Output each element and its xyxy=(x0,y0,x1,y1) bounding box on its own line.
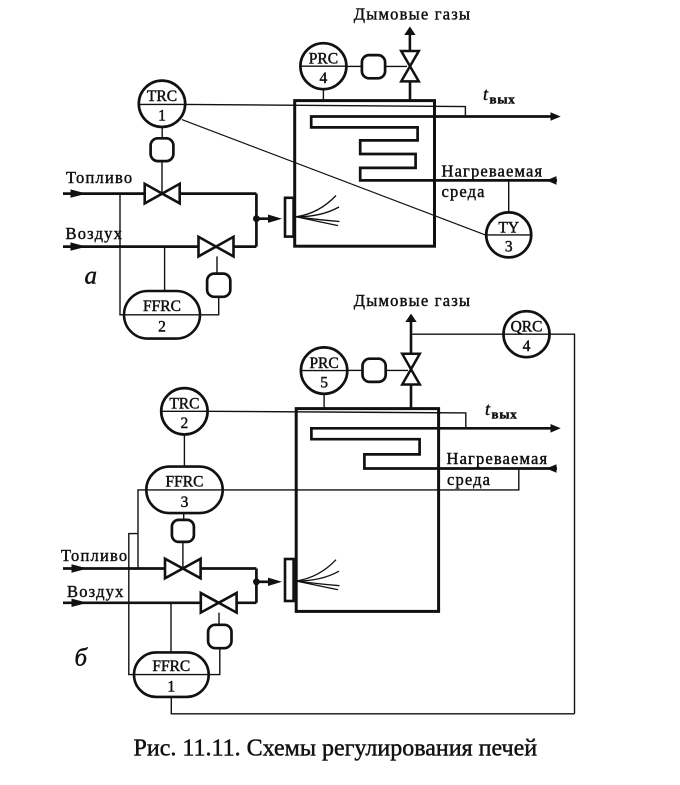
svg-text:среда: среда xyxy=(447,470,491,489)
svg-text:t: t xyxy=(483,84,489,104)
t-out arrow (scheme b) xyxy=(551,424,561,433)
signal FFRC-3 down to actuator xyxy=(183,513,185,520)
flue gas outlet arrow (scheme a) xyxy=(409,34,412,51)
svg-text:а: а xyxy=(85,263,98,290)
svg-text:вых: вых xyxy=(492,407,518,422)
analyzer QRC-4 xyxy=(504,311,550,357)
svg-text:4: 4 xyxy=(320,70,328,87)
svg-text:Воздух: Воздух xyxy=(67,582,125,601)
svg-text:3: 3 xyxy=(181,494,189,511)
svg-text:TY: TY xyxy=(498,219,519,236)
signal TRC-2 measurement line to coil outlet xyxy=(161,411,466,428)
fuel control valve (scheme b) xyxy=(165,559,201,579)
svg-text:3: 3 xyxy=(505,239,513,256)
signal PRC-5 to actuator circle xyxy=(347,369,362,371)
svg-text:среда: среда xyxy=(442,182,486,201)
signal air pipe to FFRC-1 xyxy=(170,603,172,653)
signal heated line to TY-3 xyxy=(508,180,510,212)
signal air valve to actuator circle xyxy=(216,256,218,273)
ratio controller FFRC-2 xyxy=(124,291,200,339)
svg-text:Топливо: Топливо xyxy=(61,546,128,565)
ratio controller FFRC-3 xyxy=(146,467,222,513)
signal FFRC-1 to fuel pipe xyxy=(129,534,138,675)
svg-text:Дымовые газы: Дымовые газы xyxy=(354,5,471,24)
signal diagonal TY-3 to TRC-1 xyxy=(182,120,486,236)
actuator circle (flue valve b) xyxy=(363,359,386,382)
signal line PRC-4 to actuator circle xyxy=(346,65,361,67)
air control valve (scheme a) xyxy=(199,237,234,257)
burner feed arrow (scheme a) xyxy=(256,217,272,220)
svg-text:Топливо: Топливо xyxy=(66,168,133,187)
signal actuator to fuel valve b xyxy=(182,542,184,568)
svg-text:вых: вых xyxy=(490,92,516,107)
t-out arrow (scheme a) xyxy=(551,112,561,121)
actuator circle (fuel valve a) xyxy=(151,138,174,161)
svg-text:5: 5 xyxy=(320,374,328,391)
signal FFRC-3 to fuel pipe xyxy=(138,490,146,569)
svg-text:TRC: TRC xyxy=(147,88,177,105)
flue gas outlet arrow (scheme b) xyxy=(410,321,413,354)
signal line air pipe to FFRC-2 xyxy=(164,247,166,291)
svg-text:Дымовые газы: Дымовые газы xyxy=(354,291,471,310)
svg-text:4: 4 xyxy=(523,338,531,355)
svg-text:FFRC: FFRC xyxy=(143,298,181,315)
svg-text:Нагреваемая: Нагреваемая xyxy=(442,162,544,181)
actuator circle (air valve a) xyxy=(207,274,230,297)
burner (scheme b) xyxy=(285,559,294,601)
controller PRC-5 xyxy=(301,347,347,393)
signal FFRC-1 bottom loop to QRC-4 xyxy=(171,697,574,714)
svg-text:FFRC: FFRC xyxy=(152,658,190,675)
controller TRC-1 xyxy=(139,81,185,127)
actuator circle (fuel valve b) xyxy=(172,520,194,542)
svg-text:FFRC: FFRC xyxy=(166,473,204,490)
mixing header vertical (scheme b) xyxy=(255,569,258,603)
svg-text:Рис. 11.11. Схемы регулировани: Рис. 11.11. Схемы регулирования печей xyxy=(134,736,538,762)
heating coil inside furnace b xyxy=(311,428,557,468)
fuel line (scheme a) xyxy=(63,192,145,195)
actuator circle (air valve b) xyxy=(208,625,231,648)
svg-text:t: t xyxy=(485,399,491,419)
signal TRC-1 down to actuator xyxy=(161,127,163,139)
signal actuator to flue valve xyxy=(385,65,407,67)
signal air valve b to actuator circle xyxy=(218,613,220,625)
svg-text:Нагреваемая: Нагреваемая xyxy=(447,449,549,468)
air line (scheme b) xyxy=(63,601,201,604)
flame (scheme b) xyxy=(296,560,340,590)
signal actuator to FFRC-2 xyxy=(200,297,219,315)
signal QRC-4 right and down xyxy=(550,334,575,714)
heated medium inlet arrow (scheme a) xyxy=(546,176,556,185)
svg-text:TRC: TRC xyxy=(169,396,199,413)
heating coil inside furnace a xyxy=(311,117,557,181)
signal line PRC-4 down to furnace xyxy=(322,89,324,99)
svg-text:2: 2 xyxy=(158,319,166,336)
air line (scheme a) xyxy=(63,245,199,248)
signal actuator to flue valve b xyxy=(386,369,408,371)
svg-text:2: 2 xyxy=(181,415,189,432)
valve V-flue-b on flue duct xyxy=(402,354,420,408)
burner feed arrow (scheme b) xyxy=(256,580,272,583)
furnace body (scheme b) xyxy=(296,409,438,612)
furnace body (scheme a) xyxy=(295,101,435,247)
signal TRC-2 down to FFRC-3 xyxy=(183,435,185,467)
valve V-flue-a on flue duct xyxy=(401,51,419,100)
controller PRC-4 xyxy=(300,43,346,89)
signal flue duct to QRC-4 xyxy=(411,333,504,335)
svg-text:PRC: PRC xyxy=(309,51,338,68)
signal FFRC-3 to heated medium line xyxy=(223,469,519,490)
fuel line (scheme b) xyxy=(63,567,165,570)
mixing header vertical (scheme a) xyxy=(255,194,258,247)
burner (scheme a) xyxy=(285,198,294,237)
air control valve (scheme b) xyxy=(201,593,237,613)
fuel control valve (scheme a) xyxy=(145,184,180,204)
controller TRC-2 xyxy=(161,388,207,434)
signal TRC-1 measurement line to coil outlet xyxy=(139,104,466,116)
signal actuator to fuel valve xyxy=(161,161,163,192)
temperature transmitter TY-3 xyxy=(486,212,531,257)
signal PRC-5 down to furnace xyxy=(323,394,325,408)
svg-text:1: 1 xyxy=(158,108,166,125)
actuator circle (flue valve a) xyxy=(362,55,385,78)
junction dot (scheme b) xyxy=(253,578,260,585)
signal actuator to FFRC-1 xyxy=(209,648,220,674)
svg-text:1: 1 xyxy=(167,679,175,696)
ratio controller FFRC-1 xyxy=(134,652,209,697)
flame (scheme a) xyxy=(296,196,340,226)
signal line fuel pipe to FFRC-2 xyxy=(120,194,124,315)
svg-text:б: б xyxy=(75,645,89,672)
junction dot (scheme a) xyxy=(253,215,260,222)
svg-text:Воздух: Воздух xyxy=(66,224,124,243)
heated medium inlet arrow (scheme b) xyxy=(546,464,556,473)
svg-text:QRC: QRC xyxy=(511,319,543,336)
svg-text:PRC: PRC xyxy=(309,355,338,372)
